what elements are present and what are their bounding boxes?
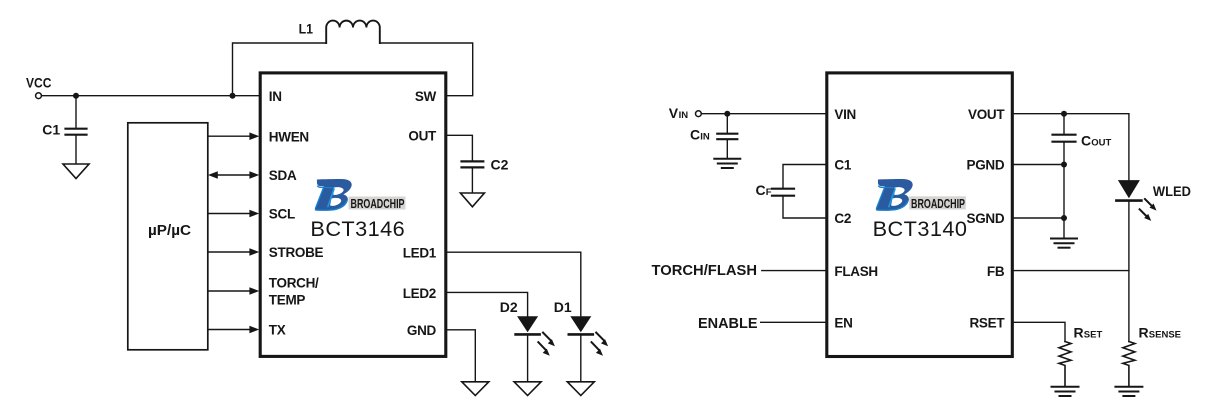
node VIN terminal — [696, 111, 702, 117]
ground (C2) — [460, 193, 484, 207]
svg-text:L1: L1 — [299, 20, 314, 36]
wire arrow STROBE — [208, 248, 259, 256]
capacitor C2 wire from OUT — [446, 135, 473, 160]
junction at PGND — [1061, 162, 1067, 168]
wire VCC to IN — [42, 95, 261, 97]
ground (GND pin) — [462, 382, 489, 396]
wire up to L1 — [233, 43, 327, 96]
wire GND pin — [446, 330, 476, 382]
svg-text:C2: C2 — [834, 211, 851, 226]
LED D1 — [569, 316, 593, 382]
svg-text:WLED: WLED — [1153, 183, 1191, 199]
svg-text:C: C — [756, 182, 766, 198]
junction at C1 — [73, 93, 79, 99]
LED D1 emission arrows — [592, 333, 609, 356]
svg-text:BROADCHIP: BROADCHIP — [911, 196, 965, 211]
wire arrow TORCH/TEMP — [208, 287, 259, 295]
wire VOUT to WLED — [1012, 113, 1129, 115]
svg-text:R: R — [1074, 324, 1084, 340]
ground (C1) — [63, 164, 89, 179]
wire LED1 — [446, 252, 581, 316]
wire arrow HWEN — [208, 132, 259, 140]
ground (D2) — [514, 382, 541, 396]
wire L1 to SW — [380, 43, 473, 96]
bright blue slit between stem and bowls — [328, 189, 334, 206]
svg-text:LED1: LED1 — [403, 245, 437, 260]
svg-text:IN: IN — [679, 110, 689, 121]
svg-text:IN: IN — [269, 89, 282, 104]
svg-text:FLASH: FLASH — [834, 264, 878, 279]
ground (CIN) three-bar — [714, 159, 740, 168]
ground (RSENSE) three-bar — [1115, 387, 1142, 396]
svg-text:PGND: PGND — [966, 158, 1004, 173]
wire ENABLE — [761, 321, 827, 323]
LED WLED — [1116, 114, 1141, 342]
svg-text:V: V — [669, 105, 679, 121]
svg-text:C: C — [1081, 132, 1091, 148]
logo U2 BROADCHIP wordmark — [909, 196, 966, 211]
svg-text:SGND: SGND — [966, 211, 1004, 226]
capacitor CIN label — [690, 127, 710, 143]
svg-text:SW: SW — [415, 89, 437, 104]
svg-text:TEMP: TEMP — [269, 293, 306, 308]
svg-text:FB: FB — [987, 264, 1005, 279]
wire FB — [1012, 270, 1129, 272]
svg-text:SET: SET — [1084, 329, 1103, 340]
svg-text:F: F — [766, 187, 772, 198]
junction at COUT — [1061, 111, 1067, 117]
svg-text:C1: C1 — [42, 122, 60, 138]
IC U1 BCT3146 box — [260, 73, 446, 357]
svg-text:SDA: SDA — [269, 168, 297, 183]
junction at SGND — [1061, 215, 1067, 221]
silhouette with counters — [315, 179, 352, 211]
LED WLED emission arrows — [1140, 199, 1157, 221]
capacitor CF wiring — [783, 165, 827, 189]
node VCC terminal — [36, 93, 42, 99]
capacitor CIN — [717, 114, 737, 159]
LED D2 emission arrows — [538, 333, 555, 356]
resistor RSENSE label — [1139, 324, 1182, 340]
bright blue accents — [316, 186, 332, 208]
svg-text:SCL: SCL — [269, 207, 295, 222]
svg-text:TX: TX — [269, 323, 286, 338]
inductor L1 — [326, 21, 380, 43]
svg-text:EN: EN — [834, 316, 852, 331]
svg-text:GND: GND — [407, 323, 437, 338]
node VIN label — [669, 105, 688, 121]
wire VIN to chip — [701, 113, 826, 115]
svg-text:OUT: OUT — [408, 129, 437, 144]
svg-text:D2: D2 — [500, 299, 518, 315]
svg-text:TORCH/: TORCH/ — [269, 276, 319, 291]
svg-text:C: C — [690, 127, 700, 143]
resistor RSENSE — [1123, 342, 1135, 387]
wire PGND — [1012, 164, 1064, 166]
svg-text:R: R — [1139, 324, 1149, 340]
wire arrow SDA (bidirectional) — [208, 171, 259, 179]
svg-text:µP/µC: µP/µC — [148, 223, 192, 239]
svg-text:RSET: RSET — [969, 316, 1005, 331]
svg-text:VCC: VCC — [26, 75, 51, 91]
capacitor C1 — [66, 96, 87, 164]
svg-text:LED2: LED2 — [403, 286, 436, 301]
LED D2 — [516, 316, 540, 382]
svg-text:STROBE: STROBE — [269, 245, 324, 260]
svg-text:BROADCHIP: BROADCHIP — [351, 196, 405, 211]
capacitor COUT — [1053, 114, 1076, 238]
svg-text:SENSE: SENSE — [1149, 329, 1181, 340]
junction at CIN — [724, 111, 730, 117]
junction at L1 branch — [230, 93, 236, 99]
ground (SGND) three-bar — [1051, 239, 1077, 248]
wire arrow TX — [208, 326, 259, 334]
logo U1 BROADCHIP wordmark — [349, 196, 406, 211]
IC U2 BCT3140 box — [827, 73, 1013, 357]
svg-text:D1: D1 — [554, 299, 572, 315]
svg-text:ENABLE: ENABLE — [698, 316, 758, 332]
wire RSET — [1012, 322, 1065, 341]
logo U1 Broadchip — [315, 179, 352, 211]
svg-text:VIN: VIN — [834, 107, 856, 122]
svg-text:BCT3140: BCT3140 — [873, 216, 968, 241]
logo U2 Broadchip — [876, 179, 913, 211]
svg-text:C2: C2 — [491, 157, 509, 173]
block uP/uC — [128, 123, 208, 350]
ground (RSET) three-bar — [1052, 387, 1079, 396]
wire LED2 — [446, 292, 528, 316]
capacitor COUT label — [1081, 132, 1111, 148]
wire SGND — [1012, 217, 1064, 219]
capacitor C2 — [462, 161, 484, 193]
svg-text:OUT: OUT — [1091, 137, 1111, 148]
capacitor CF — [772, 189, 794, 196]
wire TORCH/FLASH — [762, 270, 827, 272]
ground (D1) — [567, 382, 594, 396]
wire arrow SCL — [208, 210, 259, 218]
svg-text:VOUT: VOUT — [968, 107, 1005, 122]
svg-text:HWEN: HWEN — [269, 129, 309, 144]
svg-text:TORCH/FLASH: TORCH/FLASH — [652, 263, 758, 279]
resistor RSET label — [1074, 324, 1103, 340]
svg-text:C1: C1 — [834, 158, 851, 173]
svg-text:IN: IN — [700, 132, 710, 143]
resistor RSET — [1059, 342, 1071, 387]
capacitor CF label — [756, 182, 772, 198]
svg-text:BCT3146: BCT3146 — [310, 216, 405, 241]
